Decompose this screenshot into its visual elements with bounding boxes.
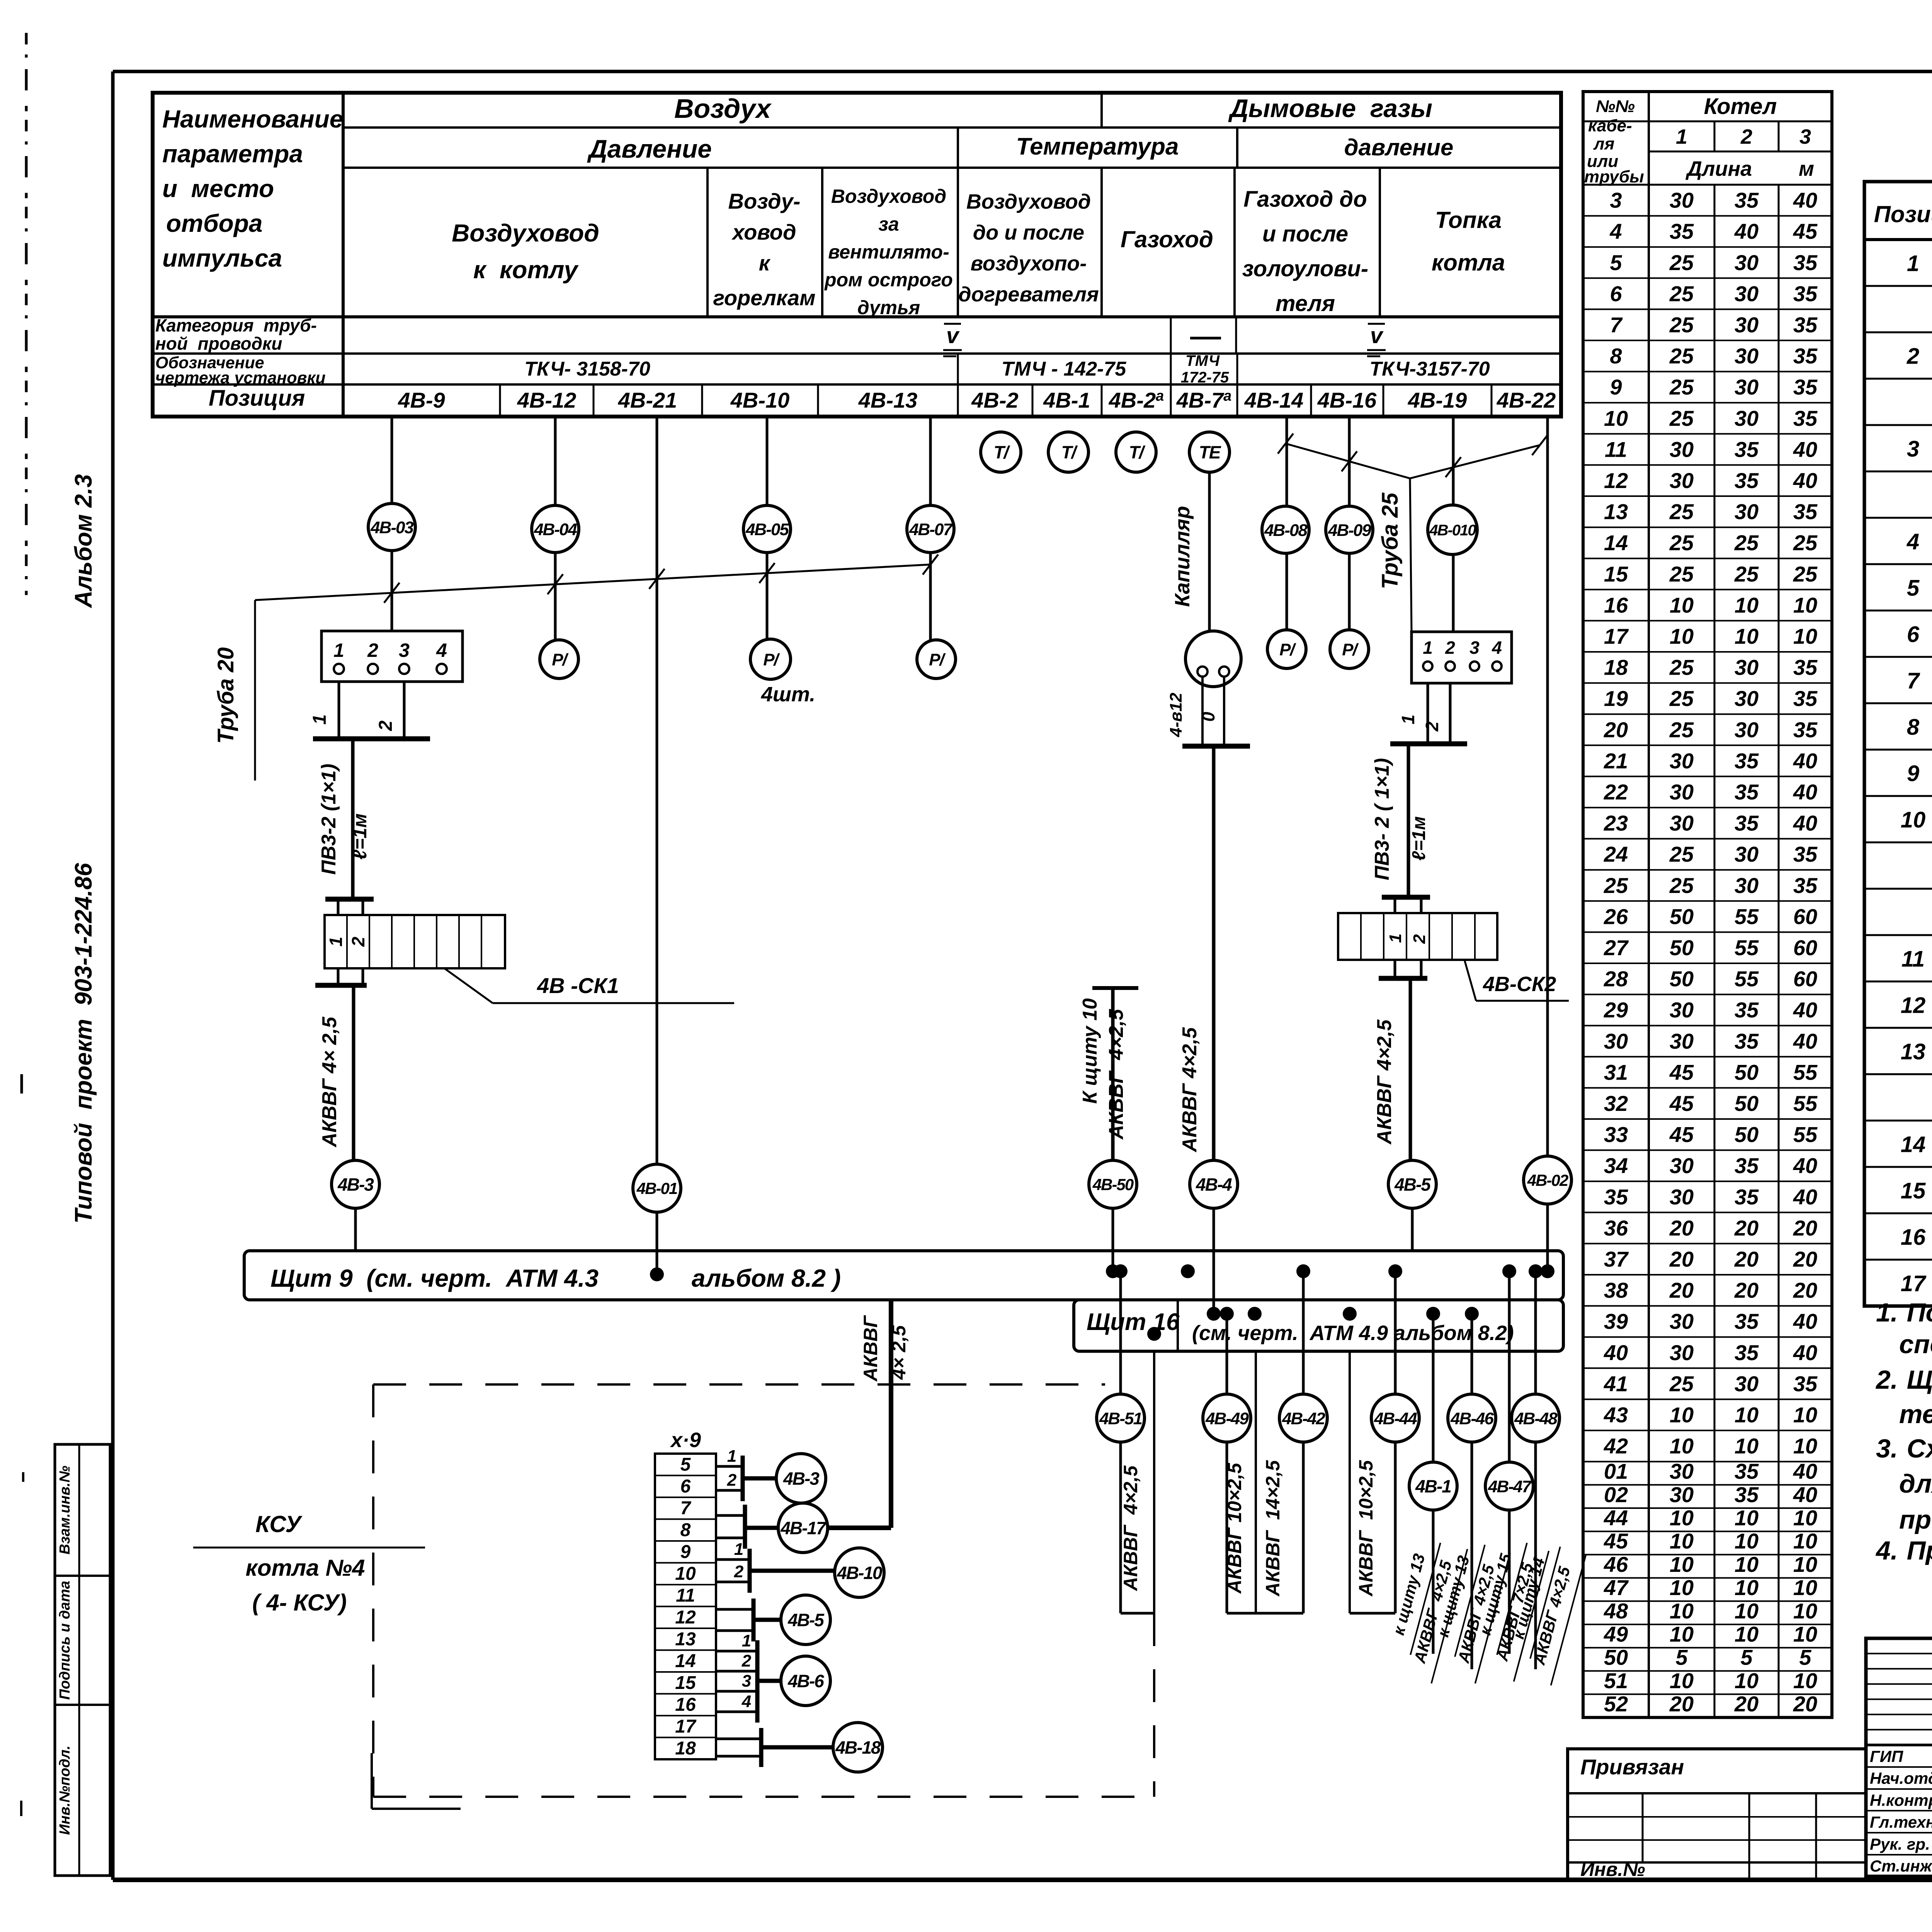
wire col 4В-12 [554, 417, 557, 505]
svg-text:14: 14 [1604, 531, 1628, 555]
svg-text:ром острого: ром острого [824, 269, 953, 291]
svg-text:7: 7 [1907, 668, 1920, 694]
stub below strip 2 [362, 968, 364, 985]
svg-text:Гл.техн.: Гл.техн. [1870, 1813, 1932, 1831]
svg-text:котла: котла [1432, 250, 1505, 276]
svg-text:10: 10 [1793, 1552, 1817, 1577]
svg-text:30: 30 [1735, 344, 1759, 368]
svg-text:Щит 9 (см. черт. АТМ 4.3: Щит 9 (см. черт. АТМ 4.3 [270, 1264, 599, 1292]
svg-text:19: 19 [1604, 686, 1628, 711]
svg-text:35: 35 [1793, 281, 1818, 306]
svg-text:30: 30 [1670, 468, 1694, 493]
svg-text:Категория труб-: Категория труб- [155, 315, 317, 335]
svg-text:35: 35 [1793, 686, 1818, 711]
svg-text:4В-21: 4В-21 [618, 388, 677, 412]
wire ПВЗ-2 down [1407, 744, 1410, 897]
cable 4В-49 with flag [1226, 1314, 1228, 1394]
instrument P1 under 4В-08 [1267, 630, 1306, 668]
svg-text:35: 35 [1793, 873, 1818, 898]
svg-text:Топка: Топка [1435, 207, 1502, 233]
svg-text:50: 50 [1735, 1122, 1759, 1147]
cable circle 4В-17 [778, 1503, 828, 1553]
svg-text:40: 40 [1604, 1340, 1628, 1365]
svg-text:25: 25 [1669, 531, 1694, 555]
svg-text:40: 40 [1793, 748, 1817, 773]
svg-text:40: 40 [1793, 468, 1817, 493]
svg-text:10: 10 [1793, 624, 1817, 648]
svg-text:Типовой проект 903-1-224.86: Типовой проект 903-1-224.86 [70, 863, 97, 1224]
position row divider [499, 384, 501, 417]
svg-text:35: 35 [1604, 1185, 1628, 1209]
pipe Труба 25 drop to box [1410, 478, 1412, 631]
cable circle 4В-03 [368, 503, 415, 551]
svg-text:40: 40 [1793, 437, 1817, 461]
svg-text:16: 16 [675, 1695, 696, 1715]
svg-text:к котлу: к котлу [473, 256, 579, 284]
svg-text:30: 30 [1670, 1029, 1694, 1053]
svg-text:20: 20 [1734, 1278, 1759, 1303]
svg-text:52: 52 [1604, 1692, 1628, 1716]
svg-text:9: 9 [680, 1542, 691, 1562]
big cell divider [706, 168, 709, 317]
svg-text:25: 25 [1669, 406, 1694, 430]
pipe crossing mark [649, 569, 665, 589]
svg-text:35: 35 [1793, 375, 1818, 399]
wire 4В-3 into Щит 9 [354, 1208, 357, 1251]
svg-text:35: 35 [1793, 313, 1818, 337]
svg-text:41: 41 [1604, 1371, 1628, 1396]
pin circle 2 [1446, 662, 1455, 671]
svg-text:45: 45 [1669, 1060, 1694, 1084]
dot 4В-42 [1296, 1264, 1310, 1278]
svg-text:35: 35 [1793, 1371, 1818, 1396]
svg-text:7: 7 [680, 1498, 692, 1519]
bulb outlet 2 [1219, 667, 1229, 677]
svg-text:Воздух: Воздух [674, 94, 772, 124]
svg-text:Рук. гр.: Рук. гр. [1870, 1835, 1930, 1853]
wire 4В-03 to box [391, 551, 393, 631]
svg-text:40: 40 [1793, 1340, 1817, 1365]
svg-text:40: 40 [1793, 780, 1817, 804]
svg-text:10: 10 [1793, 1403, 1817, 1427]
svg-text:4В-4: 4В-4 [1196, 1175, 1232, 1195]
svg-text:Воздуховод: Воздуховод [831, 185, 946, 207]
svg-text:25: 25 [1669, 250, 1694, 275]
svg-text:25: 25 [1669, 500, 1694, 524]
label 4В-СК2 leader [1464, 960, 1476, 1001]
svg-text:25: 25 [1669, 1371, 1694, 1396]
wire pin1 down [1427, 683, 1429, 744]
svg-text:40: 40 [1793, 1459, 1817, 1483]
instrument P1 under 4В-07 [917, 640, 956, 679]
svg-text:10: 10 [1901, 808, 1926, 833]
svg-text:17: 17 [675, 1716, 697, 1737]
svg-text:4В-09: 4В-09 [1328, 521, 1371, 540]
svg-text:Щит 16: Щит 16 [1087, 1309, 1180, 1335]
svg-text:10: 10 [1793, 1599, 1817, 1623]
stub to strip 1 [1394, 897, 1396, 913]
svg-text:Воздуховод: Воздуховод [452, 219, 599, 247]
big cell divider [821, 168, 823, 317]
svg-text:3: 3 [1610, 188, 1622, 213]
svg-text:9: 9 [1610, 375, 1622, 399]
instrument P1 under 4В-09 [1330, 630, 1369, 668]
dot 4В-4 end [1207, 1307, 1221, 1321]
svg-text:24: 24 [1604, 842, 1628, 866]
pipe crossing mark [923, 554, 938, 575]
svg-text:30: 30 [1735, 500, 1759, 524]
dot 4В-02 [1541, 1264, 1554, 1278]
svg-text:спецификации оборудования А: спецификации оборудования АТМ. СО1. [1899, 1330, 1932, 1359]
dot 4В-49 [1220, 1307, 1234, 1321]
svg-text:5: 5 [680, 1454, 691, 1475]
svg-text:10: 10 [1735, 1552, 1759, 1577]
svg-text:44: 44 [1604, 1506, 1628, 1530]
svg-text:25: 25 [1669, 842, 1694, 866]
svg-text:воздухопо-: воздухопо- [971, 252, 1087, 275]
pin circle 2 [368, 664, 378, 674]
svg-text:22: 22 [1604, 780, 1628, 804]
svg-text:Наименование: Наименование [162, 105, 343, 133]
instrument P1 under 4В-05 [750, 639, 791, 679]
cable circle 4В-5 [781, 1595, 830, 1645]
dot flag42 [1248, 1307, 1262, 1321]
wire col 4В-10 [766, 417, 769, 505]
registration mark horizontal [372, 1808, 461, 1810]
dot 4В-47 [1502, 1264, 1516, 1278]
svg-text:55: 55 [1735, 904, 1759, 929]
svg-text:40: 40 [1793, 1185, 1817, 1209]
svg-text:АКВВГ 4×2,5: АКВВГ 4×2,5 [1105, 1009, 1128, 1140]
svg-text:15: 15 [675, 1673, 696, 1693]
svg-text:ℓ=1м: ℓ=1м [1409, 816, 1429, 861]
svg-text:10: 10 [1735, 1599, 1759, 1623]
instrument T1 b [1048, 432, 1088, 472]
svg-text:25: 25 [1669, 281, 1694, 306]
pipe line Труба 20 [255, 565, 930, 600]
svg-text:30: 30 [1735, 281, 1759, 306]
svg-text:30: 30 [1735, 375, 1759, 399]
svg-text:30: 30 [1735, 250, 1759, 275]
pin circle 4 [1492, 662, 1502, 671]
Щит 9 box [244, 1251, 1563, 1300]
svg-text:5: 5 [1740, 1645, 1753, 1670]
svg-text:АКВВГ 4×2,5: АКВВГ 4×2,5 [1373, 1019, 1396, 1145]
svg-text:10: 10 [1735, 1529, 1759, 1553]
svg-text:Позиция: Позиция [209, 386, 305, 411]
instrument T1 c [1116, 432, 1156, 472]
left edge mark [22, 1472, 24, 1482]
svg-text:4В-14: 4В-14 [1244, 388, 1304, 412]
svg-text:№№: №№ [1596, 97, 1635, 116]
svg-text:К щиту 10: К щиту 10 [1079, 998, 1101, 1104]
svg-text:Привязан: Привязан [1580, 1755, 1684, 1779]
wire col 4В-14 [1286, 417, 1288, 506]
svg-text:1: 1 [734, 1540, 743, 1559]
spec header underline [1864, 238, 1932, 241]
svg-text:10: 10 [1670, 624, 1694, 648]
svg-text:46: 46 [1604, 1552, 1628, 1577]
stub to strip 2 [1420, 897, 1423, 913]
svg-text:кабе-: кабе- [1588, 116, 1632, 135]
svg-text:35: 35 [1735, 748, 1759, 773]
svg-text:5: 5 [1675, 1645, 1688, 1670]
dot 4В-50 [1106, 1264, 1120, 1278]
svg-text:АКВВГ 10×2,5: АКВВГ 10×2,5 [1355, 1460, 1377, 1597]
svg-text:ℓ=1м: ℓ=1м [349, 813, 371, 860]
svg-text:25: 25 [1669, 313, 1694, 337]
svg-text:2: 2 [348, 937, 368, 947]
svg-text:21: 21 [1604, 748, 1628, 773]
svg-text:4В-2а: 4В-2а [1109, 388, 1164, 412]
wire АКВВГ to 4В-4 [1212, 746, 1216, 1160]
svg-text:м: м [1799, 157, 1814, 180]
svg-text:9: 9 [1907, 761, 1919, 786]
svg-text:35: 35 [1793, 406, 1818, 430]
position row divider [1032, 384, 1034, 417]
svg-text:4В-10: 4В-10 [730, 388, 790, 412]
big cell divider [1379, 168, 1381, 317]
cable circle 4В-10 [835, 1548, 884, 1597]
cable circle 4В-08 [1262, 506, 1309, 553]
svg-text:Капилляр: Капилляр [1171, 506, 1194, 607]
position row divider [593, 384, 595, 417]
svg-text:55: 55 [1793, 1060, 1818, 1084]
pipe Труба 20 left drop [254, 600, 256, 781]
svg-text:4В-9: 4В-9 [398, 388, 445, 412]
svg-text:23: 23 [1604, 811, 1628, 835]
margin table row line 2 [55, 1704, 110, 1706]
thermometer bulb [1185, 631, 1241, 687]
dot 4В-01 [650, 1267, 664, 1281]
svg-text:10: 10 [1735, 1668, 1759, 1693]
svg-text:48: 48 [1604, 1599, 1628, 1623]
dot 4В-46 [1465, 1307, 1479, 1321]
frame bottom border [113, 1878, 1932, 1882]
svg-text:4шт.: 4шт. [761, 683, 815, 706]
svg-text:29: 29 [1604, 998, 1628, 1022]
svg-text:30: 30 [1735, 842, 1759, 866]
svg-text:10: 10 [1604, 406, 1628, 430]
svg-text:Инв.№: Инв.№ [1580, 1859, 1645, 1880]
svg-text:4В-49: 4В-49 [1205, 1409, 1249, 1428]
pipe crossing mark [1342, 451, 1357, 471]
svg-text:АКВВГ 4× 2,5: АКВВГ 4× 2,5 [318, 1016, 341, 1148]
svg-text:Инв.№подл.: Инв.№подл. [57, 1745, 73, 1835]
svg-text:4В-5: 4В-5 [787, 1610, 825, 1630]
wire pin2 down [1449, 683, 1452, 744]
svg-text:3: 3 [742, 1672, 751, 1690]
svg-text:30: 30 [1670, 1340, 1694, 1365]
svg-text:30: 30 [1670, 1482, 1694, 1507]
pin circle 1 [334, 664, 344, 674]
svg-text:49: 49 [1604, 1622, 1628, 1646]
svg-text:чертежа установки: чертежа установки [155, 369, 326, 387]
svg-text:4В-07: 4В-07 [909, 520, 953, 539]
svg-text:35: 35 [1735, 1185, 1759, 1209]
svg-text:40: 40 [1793, 1482, 1817, 1507]
svg-text:5: 5 [1799, 1645, 1811, 1670]
svg-text:10: 10 [1670, 1434, 1694, 1458]
svg-text:0: 0 [1198, 712, 1218, 722]
wire 4В-05 to P1 [766, 553, 769, 641]
capillary junction bar [1182, 744, 1250, 749]
svg-text:20: 20 [1793, 1247, 1817, 1271]
svg-text:4В-08: 4В-08 [1264, 521, 1308, 540]
svg-text:20: 20 [1734, 1247, 1759, 1271]
АКВВГ 4x2.5 cable from Щит 9 to 4В-17 [889, 1300, 893, 1528]
svg-text:вентилято-: вентилято- [828, 241, 949, 263]
svg-text:4В-01: 4В-01 [636, 1179, 677, 1197]
terminal group 4В-6 [716, 1650, 757, 1653]
stub to strip 1 [337, 899, 340, 915]
svg-text:16: 16 [1901, 1225, 1926, 1250]
svg-text:30: 30 [1670, 188, 1694, 213]
Привязан box [1568, 1749, 1866, 1880]
left edge mark [20, 1074, 23, 1094]
svg-text:35: 35 [1670, 219, 1694, 243]
svg-text:догревателя: догревателя [958, 283, 1099, 306]
svg-text:20: 20 [1793, 1692, 1817, 1716]
row line under Обозначение [153, 383, 1561, 386]
svg-text:13: 13 [1604, 500, 1628, 524]
svg-text:02: 02 [1604, 1482, 1628, 1507]
svg-text:2: 2 [367, 639, 378, 661]
svg-text:32: 32 [1604, 1091, 1628, 1116]
svg-text:4В-48: 4В-48 [1514, 1409, 1558, 1428]
divider Давление|Температура [957, 128, 959, 168]
svg-text:до и после: до и после [973, 221, 1084, 244]
svg-text:3: 3 [399, 639, 410, 661]
svg-text:60: 60 [1793, 904, 1817, 929]
wire 4В-01 into Щит 9 [656, 1212, 658, 1274]
svg-text:31: 31 [1604, 1060, 1628, 1084]
cable circle 4В-07 [907, 505, 954, 553]
svg-text:(см. черт. АТМ 4.9 альбом 8.2: (см. черт. АТМ 4.9 альбом 8.2) [1192, 1321, 1514, 1345]
svg-text:11: 11 [1901, 947, 1925, 972]
cable circle 4В-04 [532, 505, 579, 553]
svg-text:теля: теля [1276, 291, 1335, 316]
svg-text:10: 10 [1670, 1575, 1694, 1600]
bulb outlet 1 [1197, 667, 1207, 677]
svg-text:33: 33 [1604, 1122, 1628, 1147]
svg-text:20: 20 [1793, 1278, 1817, 1303]
line above signature rows [1866, 1744, 1932, 1747]
svg-text:Газоход до: Газоход до [1243, 187, 1367, 212]
svg-text:10: 10 [1670, 1622, 1694, 1646]
wire col 4В-22 long [1546, 417, 1549, 1156]
svg-text:2: 2 [727, 1471, 737, 1490]
wire ПВЗ-2 down [351, 739, 355, 899]
svg-text:25: 25 [1669, 718, 1694, 742]
cable table col divider 2 header [1714, 121, 1716, 151]
category dash mark [1190, 337, 1221, 340]
cable table col divider 2 [1714, 185, 1716, 1718]
svg-text:ГИП: ГИП [1870, 1747, 1903, 1765]
svg-text:ля: ля [1593, 134, 1614, 153]
svg-text:15: 15 [1604, 562, 1628, 586]
svg-text:20: 20 [1604, 718, 1628, 742]
pipe end mark [1278, 434, 1293, 454]
svg-text:1: 1 [333, 639, 344, 661]
svg-text:35: 35 [1735, 1153, 1759, 1178]
dot flag44 [1343, 1307, 1357, 1321]
cable circle 4В-18 [833, 1723, 883, 1772]
capillary tube left [1201, 677, 1204, 744]
svg-text:2: 2 [1906, 344, 1919, 369]
pin circle 4 [437, 664, 447, 674]
svg-text:20: 20 [1734, 1692, 1759, 1716]
cable 4В-44 with flag [1394, 1271, 1397, 1394]
svg-text:Альбом 2.3: Альбом 2.3 [70, 474, 97, 609]
cable circle 4В-01 [633, 1164, 681, 1212]
cable circle 4В-09 [1326, 506, 1373, 553]
svg-text:4В-50: 4В-50 [1092, 1175, 1134, 1194]
svg-text:4× 2,5: 4× 2,5 [888, 1325, 910, 1380]
cable circle 4В-02 [1524, 1156, 1571, 1204]
terminal group 4В-3 [716, 1465, 743, 1468]
svg-text:25: 25 [1734, 531, 1759, 555]
cable 4В-42 with flag [1302, 1271, 1305, 1394]
svg-text:АКВВГ 10×2,5: АКВВГ 10×2,5 [1224, 1463, 1245, 1594]
svg-text:43: 43 [1604, 1403, 1628, 1427]
terminal group 4В-18 [716, 1738, 761, 1740]
wire pin1 down [338, 682, 340, 739]
svg-text:1: 1 [742, 1631, 751, 1650]
cable circle 4В-05 [743, 505, 791, 553]
svg-text:4В-44: 4В-44 [1374, 1409, 1417, 1428]
svg-text:2: 2 [742, 1651, 752, 1670]
svg-text:36: 36 [1604, 1216, 1628, 1240]
svg-text:4В-3: 4В-3 [337, 1175, 374, 1195]
svg-text:3: 3 [1907, 437, 1919, 462]
stub below strip 1 [1394, 960, 1396, 978]
svg-text:6: 6 [1610, 281, 1622, 306]
svg-text:40: 40 [1793, 1153, 1817, 1178]
svg-text:30: 30 [1735, 406, 1759, 430]
svg-text:7: 7 [1610, 313, 1623, 337]
position row divider [1383, 384, 1384, 417]
big cell divider [1233, 168, 1236, 317]
svg-text:4: 4 [436, 639, 447, 661]
divider Температура|давление [1236, 128, 1238, 168]
svg-text:ТКЧ-3157-70: ТКЧ-3157-70 [1369, 358, 1490, 380]
parameter table left column divider [342, 93, 345, 417]
svg-text:20: 20 [1669, 1692, 1694, 1716]
pipe crossing mark [759, 563, 775, 583]
cable table col divider 3 [1778, 185, 1780, 1718]
svg-text:Дымовые газы: Дымовые газы [1228, 94, 1432, 122]
margin table label column line [78, 1444, 80, 1876]
svg-text:4В-19: 4В-19 [1408, 388, 1467, 412]
svg-text:25: 25 [1734, 562, 1759, 586]
oboz row divider [1170, 354, 1172, 384]
cable 4В-48 [1534, 1271, 1537, 1394]
svg-text:25: 25 [1669, 375, 1694, 399]
svg-text:4В-1: 4В-1 [1043, 388, 1090, 412]
svg-text:4В-010: 4В-010 [1429, 522, 1476, 539]
svg-text:35: 35 [1735, 1029, 1759, 1053]
svg-text:35: 35 [1735, 1340, 1759, 1365]
svg-text:30: 30 [1735, 718, 1759, 742]
svg-text:4В-46: 4В-46 [1450, 1409, 1494, 1428]
svg-text:4В-22: 4В-22 [1497, 388, 1556, 412]
svg-text:25: 25 [1669, 873, 1694, 898]
svg-text:ТЕ: ТЕ [1199, 442, 1221, 463]
wire 4В-50 [1111, 988, 1115, 1160]
row line under Воздух/Дымовые газы [343, 126, 1561, 129]
svg-text:10: 10 [1670, 1403, 1694, 1427]
